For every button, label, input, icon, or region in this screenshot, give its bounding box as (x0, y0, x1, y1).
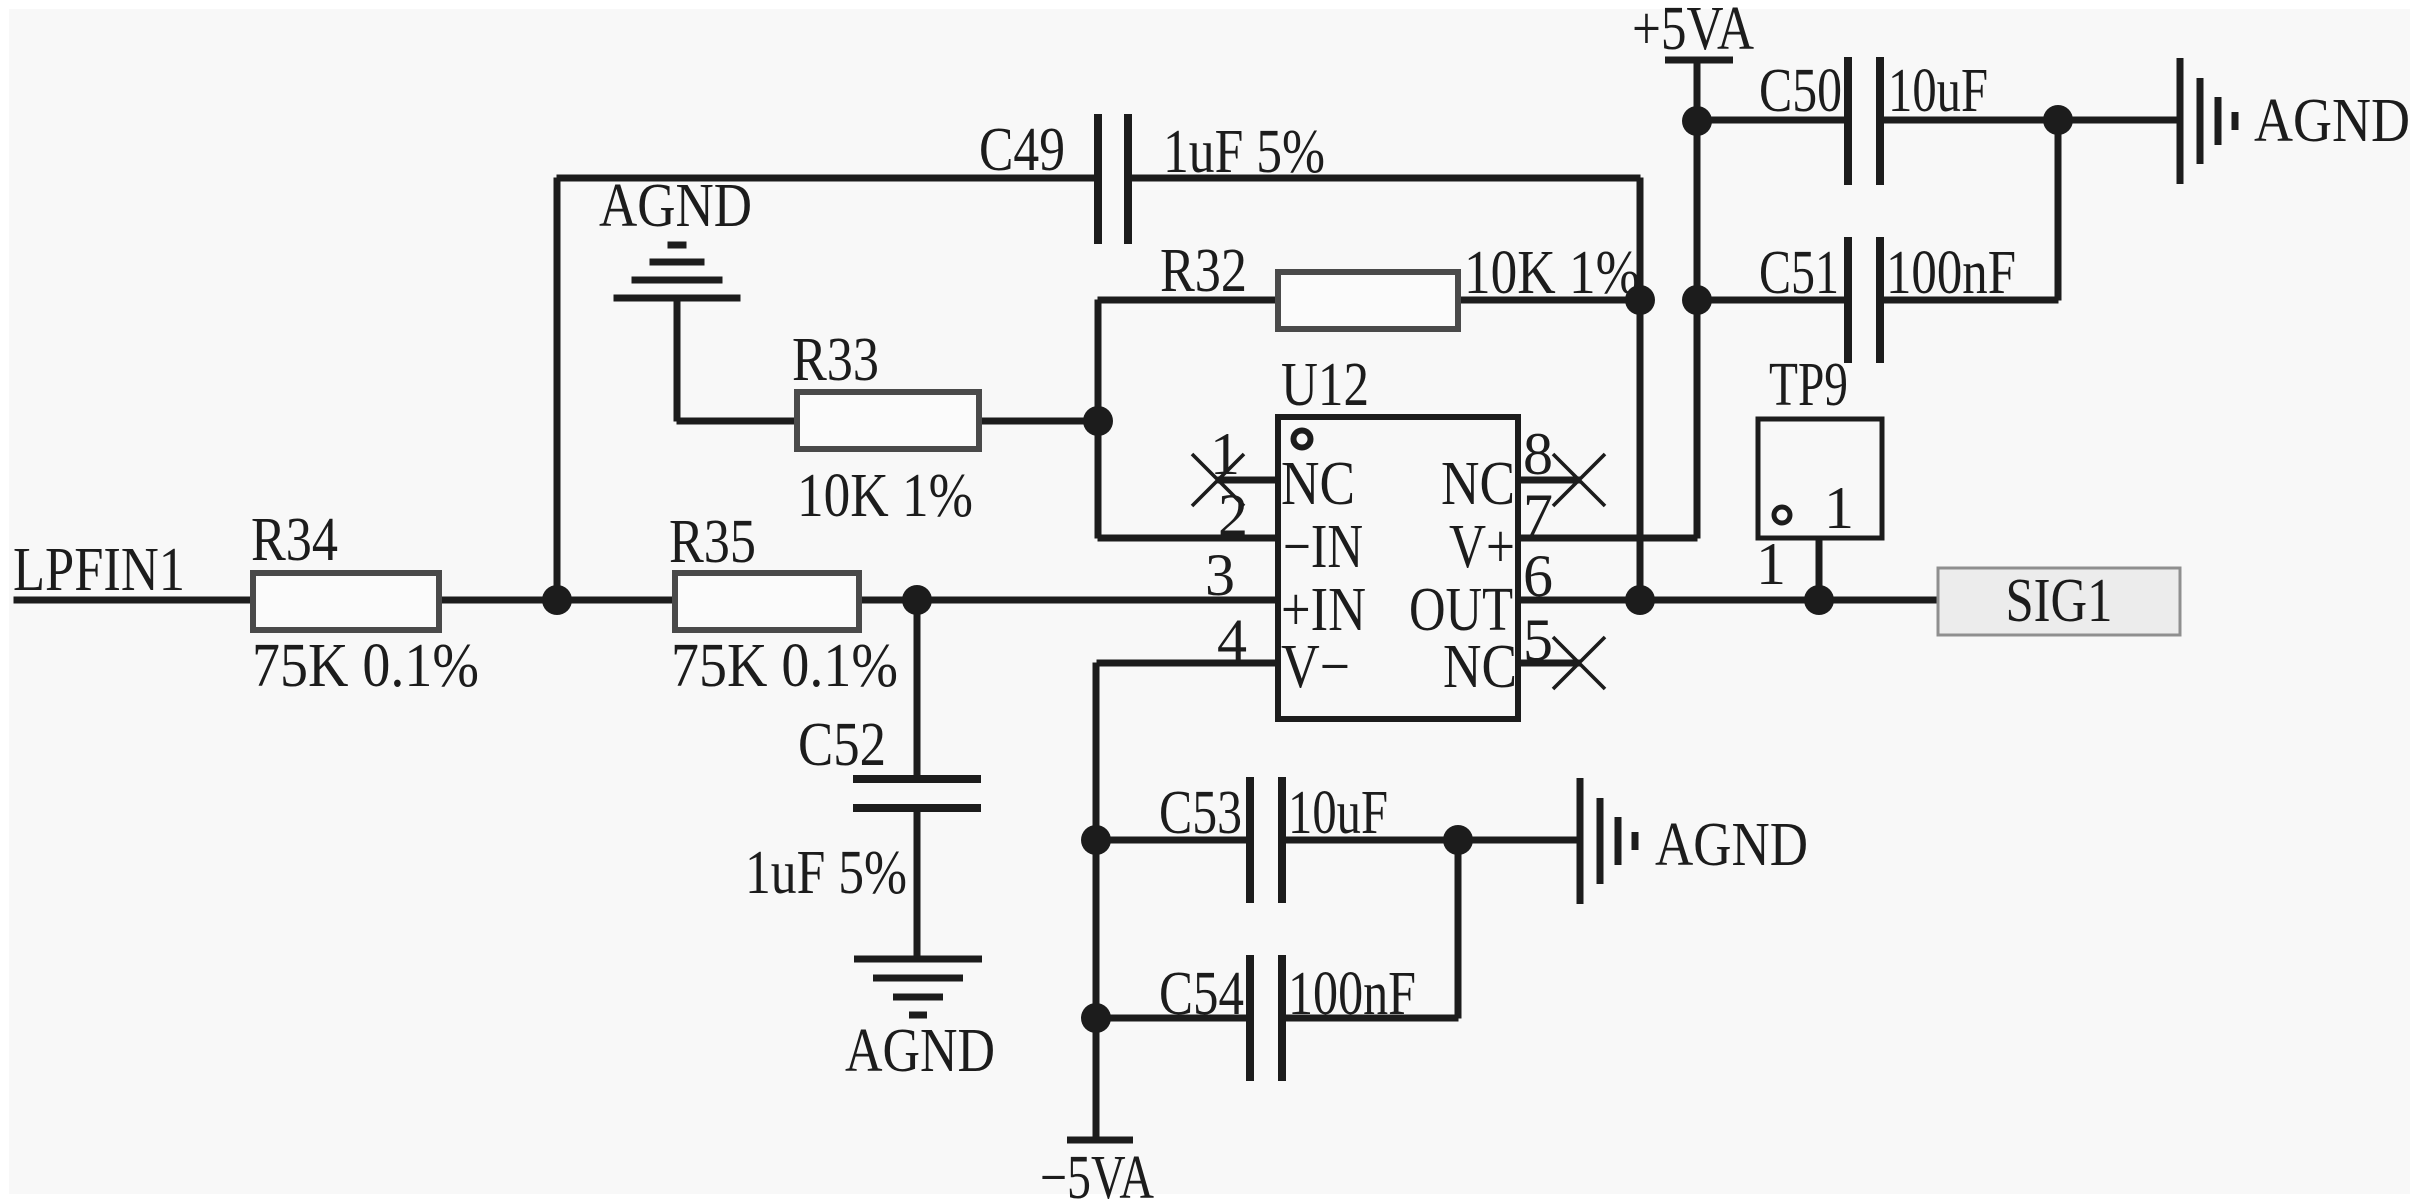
svg-text:10K 1%: 10K 1% (797, 462, 973, 530)
svg-text:TP9: TP9 (1769, 351, 1848, 419)
ground AGND (top right, C50) (2177, 58, 2184, 184)
wire C52 top lead (914, 600, 921, 776)
wire OUT (pin 6) to SIG1 (1518, 597, 1942, 604)
junction node J2 (902, 585, 932, 615)
TP9 pad circle (1774, 507, 1790, 523)
op-amp U12 body (1278, 417, 1518, 719)
svg-text:NC: NC (1443, 633, 1517, 701)
svg-text:C51: C51 (1759, 239, 1839, 307)
wire C53 right to AGND (1286, 837, 1578, 844)
resistor R33 (797, 392, 979, 449)
wire op-amp V- (pin 4) lead (1097, 660, 1279, 667)
svg-text:1: 1 (1824, 475, 1854, 541)
no-connect X pin 1 (1192, 454, 1244, 506)
resistor R32 (1278, 272, 1458, 329)
svg-text:100nF: 100nF (1288, 960, 1416, 1028)
wire +5VA to C50 left (1697, 117, 1845, 124)
svg-text:AGND: AGND (845, 1017, 995, 1085)
wire R34 to R35 segment (439, 597, 676, 604)
svg-text:1: 1 (1756, 531, 1786, 597)
wire C49 right lead to feedback corner (1132, 175, 1641, 182)
junction node J10 (1081, 825, 1111, 855)
wire C54 right lead (1286, 1015, 1459, 1022)
junction node J8 (1682, 285, 1712, 315)
ground AGND (bottom, below C52) (854, 956, 982, 963)
svg-text:AGND: AGND (1655, 811, 1808, 879)
wire op-amp NC pin 8 stub (1518, 477, 1582, 484)
svg-text:NC: NC (1281, 450, 1355, 518)
capacitor C52 (853, 775, 981, 783)
wire node A riser (main node up to C49) (554, 178, 561, 601)
wire feedback vertical (C49/R32 right to OUT) (1637, 178, 1644, 601)
junction node J7 (1682, 106, 1712, 136)
svg-text:+5VA: +5VA (1632, 0, 1754, 63)
ground AGND (top left, above R33) (668, 242, 687, 249)
svg-text:7: 7 (1523, 482, 1553, 548)
svg-text:C50: C50 (1759, 57, 1842, 125)
wire C51 right lead (1884, 297, 2059, 304)
svg-text:AGND: AGND (2254, 87, 2410, 155)
capacitor C54 (1246, 955, 1254, 1081)
wire -5VA rail to C53 left (1097, 837, 1247, 844)
wire C52 bottom lead to AGND (914, 811, 921, 960)
junction node J11 (1081, 1003, 1111, 1033)
svg-text:8: 8 (1523, 421, 1553, 487)
wire -5VA rail to C54 left (1097, 1015, 1247, 1022)
svg-text:10uF: 10uF (1888, 57, 1988, 125)
junction node J5 (1625, 585, 1655, 615)
capacitor C51 (1844, 237, 1852, 363)
wire R35 to op-amp +IN (pin 3) (859, 597, 1279, 604)
wire +5VA vertical rail (1694, 60, 1701, 539)
svg-text:75K 0.1%: 75K 0.1% (671, 632, 898, 700)
ground AGND (middle right, C53) (1577, 778, 1584, 904)
svg-text:R32: R32 (1160, 237, 1247, 305)
svg-text:C49: C49 (979, 116, 1065, 184)
wire R32 right lead (1458, 297, 1641, 304)
net label SIG1 (1938, 568, 2180, 635)
wire op-amp -IN (pin 2) lead (1098, 535, 1279, 542)
svg-text:−IN: −IN (1283, 513, 1363, 581)
svg-text:C53: C53 (1159, 779, 1242, 847)
svg-text:6: 6 (1523, 543, 1553, 609)
wire C53/C54 ground-side vertical (1455, 840, 1462, 1019)
junction node J4 (1625, 285, 1655, 315)
svg-text:SIG1: SIG1 (2006, 567, 2113, 635)
svg-text:1uF 5%: 1uF 5% (745, 839, 907, 907)
svg-text:75K 0.1%: 75K 0.1% (252, 632, 479, 700)
svg-text:R34: R34 (251, 506, 338, 574)
wire R33 left lead (677, 418, 798, 425)
power -5VA (1067, 1137, 1133, 1144)
svg-text:3: 3 (1205, 542, 1235, 608)
svg-text:100nF: 100nF (1886, 239, 2016, 307)
svg-text:U12: U12 (1281, 351, 1369, 419)
svg-text:R33: R33 (792, 326, 879, 394)
junction node J3 (1083, 406, 1113, 436)
svg-text:5: 5 (1523, 607, 1553, 673)
svg-text:4: 4 (1217, 607, 1247, 673)
junction node J9 (2043, 105, 2073, 135)
svg-text:C52: C52 (798, 711, 886, 779)
svg-text:R35: R35 (669, 508, 756, 576)
svg-text:AGND: AGND (599, 172, 752, 240)
svg-text:10K 1%: 10K 1% (1464, 239, 1640, 307)
capacitor C53 (1246, 777, 1254, 903)
svg-text:−5VA: −5VA (1040, 1144, 1154, 1202)
capacitor C49 (1094, 114, 1102, 244)
capacitor C50 (1844, 57, 1852, 185)
wire C50 right to AGND (1884, 117, 2178, 124)
wire op-amp V+ (pin 7) lead (1518, 535, 1698, 542)
wire +5VA to C51 left (1697, 297, 1845, 304)
wire op-amp NC pin 1 stub (1218, 477, 1279, 484)
svg-text:V−: V− (1281, 633, 1350, 701)
junction node J1 (542, 585, 572, 615)
svg-text:C54: C54 (1159, 960, 1244, 1028)
svg-text:2: 2 (1218, 482, 1248, 548)
wire C49 left lead (557, 175, 1095, 182)
svg-text:LPFIN1: LPFIN1 (13, 536, 185, 604)
op-amp U12 pin-1 indicator circle (1294, 431, 1311, 448)
wire R32 left lead (1098, 297, 1279, 304)
svg-text:V+: V+ (1449, 513, 1515, 581)
wire TP9 stub (1816, 538, 1823, 601)
svg-text:NC: NC (1441, 450, 1515, 518)
wire LPFIN1 input segment (14, 597, 254, 604)
resistor R35 (675, 573, 859, 630)
test point TP9 body (1758, 419, 1882, 538)
svg-text:10uF: 10uF (1288, 779, 1388, 847)
wire R33 right lead (979, 418, 1099, 425)
no-connect X pin 5 (1553, 637, 1605, 689)
power +5VA (1665, 57, 1733, 64)
junction node J6 (1804, 585, 1834, 615)
no-connect X pin 8 (1553, 454, 1605, 506)
wire inverting-node vertical (R32 left to pin 2) (1095, 300, 1102, 539)
resistor R34 (253, 573, 439, 630)
junction node J12 (1443, 825, 1473, 855)
svg-text:1uF 5%: 1uF 5% (1163, 118, 1325, 186)
wire op-amp NC pin 5 stub (1518, 660, 1582, 667)
wire AGND stem to R33 (674, 298, 681, 422)
wire -5VA vertical rail (1093, 663, 1100, 1141)
wire C50/C51 ground-side vertical (2055, 120, 2062, 301)
